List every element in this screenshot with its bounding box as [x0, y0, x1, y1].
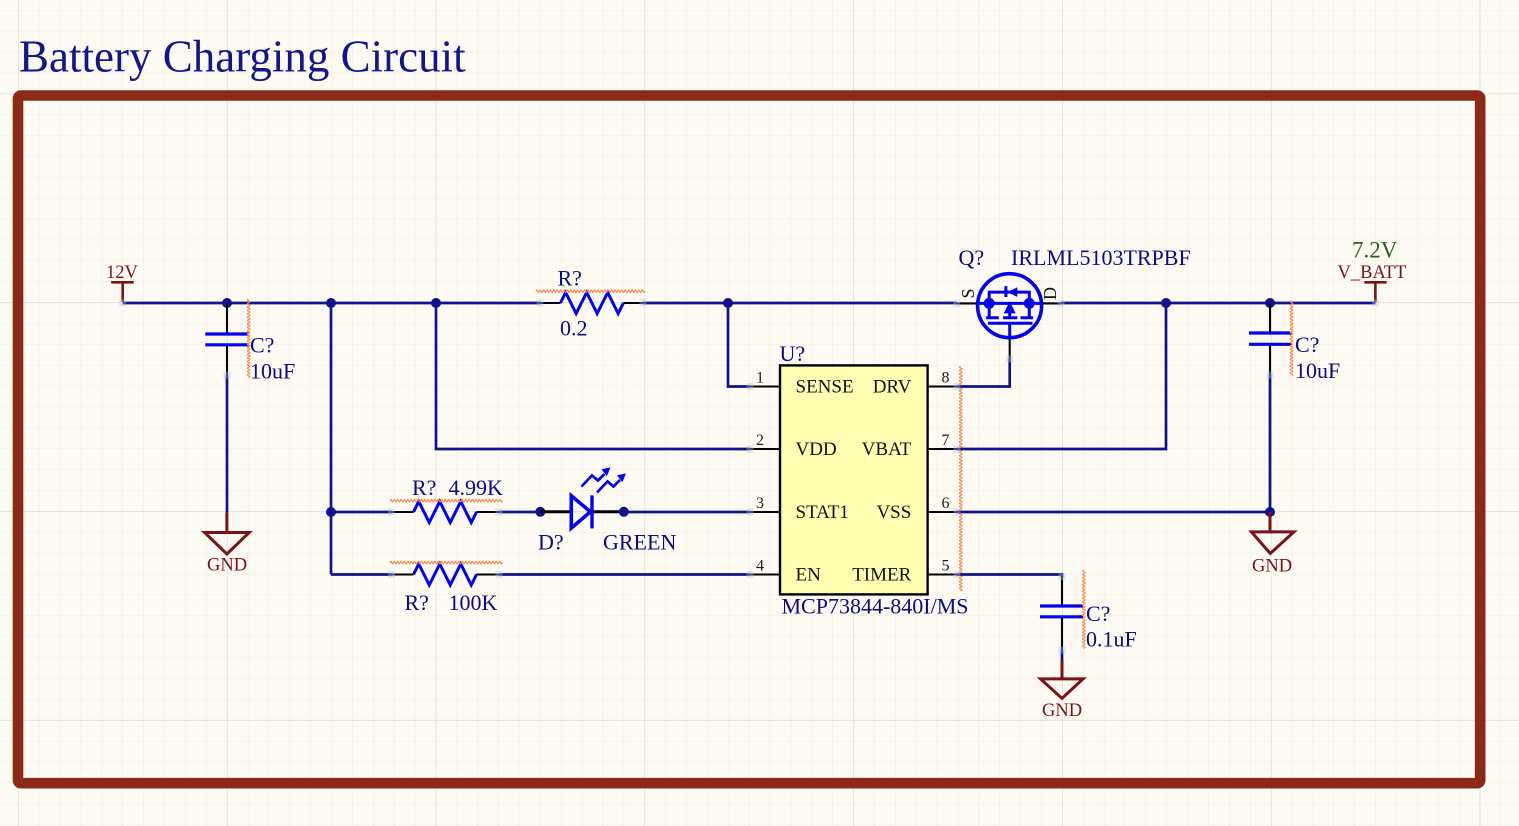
- wire VBAT branch: [957, 303, 1166, 449]
- svg-text:Battery Charging Circuit: Battery Charging Circuit: [19, 32, 466, 82]
- junction at VDD branch: [431, 298, 441, 308]
- svg-text:U?: U?: [780, 341, 806, 366]
- LED D?: [538, 468, 676, 555]
- svg-text:STAT1: STAT1: [796, 502, 849, 523]
- wire R1 to Q1 source: [643, 302, 957, 305]
- svg-text:10uF: 10uF: [1295, 358, 1340, 383]
- wire C2 to GND: [1061, 650, 1064, 660]
- svg-text:C?: C?: [250, 333, 274, 358]
- wire branch to VDD: [436, 303, 750, 449]
- junction VSS/C3/GND: [1265, 507, 1275, 517]
- wire R3 to EN: [499, 573, 750, 576]
- svg-text:100K: 100K: [449, 590, 498, 615]
- svg-text:4.99K: 4.99K: [449, 475, 504, 500]
- svg-text:MCP73844-840I/MS: MCP73844-840I/MS: [782, 594, 969, 619]
- wire C1 to GND: [226, 375, 229, 512]
- junction LED anode: [535, 507, 545, 517]
- wire C3 to VSS junction: [1269, 375, 1272, 512]
- svg-text:7.2V: 7.2V: [1352, 237, 1398, 262]
- junction LED cathode: [619, 507, 629, 517]
- wire branch to R2/R3: [330, 303, 333, 575]
- svg-text:SENSE: SENSE: [796, 377, 854, 398]
- svg-text:GND: GND: [207, 556, 247, 576]
- svg-text:7: 7: [942, 432, 950, 449]
- LED arrow 1: [582, 474, 605, 487]
- IC left pins: [750, 387, 780, 575]
- power port V_BATT: [1364, 282, 1386, 302]
- source/drain pins: [957, 302, 1062, 304]
- resistor R2 4.99K: [390, 475, 503, 523]
- capacitor C2 0.1uF: [1040, 570, 1137, 651]
- wire to R2: [331, 511, 392, 514]
- junction at STAT1 row: [326, 507, 336, 517]
- LED arrow 2: [597, 480, 620, 493]
- svg-text:0.1uF: 0.1uF: [1086, 627, 1137, 652]
- svg-text:C?: C?: [1295, 332, 1319, 357]
- svg-text:VBAT: VBAT: [862, 439, 912, 460]
- svg-text:R?: R?: [405, 590, 429, 615]
- IC right pins: [928, 387, 958, 575]
- svg-text:VDD: VDD: [796, 439, 837, 460]
- svg-text:IRLML5103TRPBF: IRLML5103TRPBF: [1011, 245, 1191, 270]
- junction at SENSE branch: [723, 298, 733, 308]
- svg-text:10uF: 10uF: [250, 359, 295, 384]
- svg-text:5: 5: [942, 558, 950, 575]
- pin end markers: [119, 300, 1379, 654]
- svg-text:1: 1: [756, 370, 764, 387]
- compile mask IC right pins: [959, 366, 962, 590]
- junction at C1 branch: [222, 298, 232, 308]
- svg-text:GND: GND: [1252, 557, 1292, 577]
- svg-text:GREEN: GREEN: [603, 530, 676, 555]
- resistor R1 0.2: [536, 266, 645, 341]
- svg-text:3: 3: [756, 495, 764, 512]
- resistor R3 100K: [390, 561, 502, 615]
- wire TIMER to C2: [957, 575, 1062, 578]
- wire R2 to LED: [499, 511, 540, 514]
- wire DRV to Q1 gate: [957, 359, 1010, 387]
- svg-text:2: 2: [756, 432, 764, 449]
- svg-text:TIMER: TIMER: [852, 565, 911, 586]
- svg-text:R?: R?: [558, 266, 582, 291]
- svg-text:GND: GND: [1042, 701, 1082, 721]
- wire to R3: [331, 573, 392, 576]
- svg-text:6: 6: [942, 495, 950, 512]
- wire branch to SENSE: [728, 303, 750, 387]
- ground GND right: [1251, 512, 1294, 554]
- svg-text:S: S: [958, 288, 978, 298]
- svg-text:8: 8: [942, 370, 950, 387]
- svg-text:Q?: Q?: [959, 245, 985, 270]
- junction at R2/R3 branch: [326, 298, 336, 308]
- wire LED to STAT1: [624, 511, 750, 514]
- svg-text:C?: C?: [1086, 601, 1110, 626]
- ground GND timer: [1041, 660, 1084, 698]
- transistor Q1 IRLML5103TRPBF: [957, 245, 1191, 359]
- IC U1 MCP73844 body: [780, 365, 928, 594]
- svg-text:D?: D?: [538, 530, 564, 555]
- power port 12V: [111, 282, 134, 302]
- svg-text:R?: R?: [412, 475, 436, 500]
- ground GND left: [205, 512, 250, 554]
- svg-text:0.2: 0.2: [560, 316, 588, 341]
- wire VSS: [957, 511, 1270, 514]
- capacitor C3 10uF: [1249, 301, 1340, 383]
- capacitor C1 10uF: [205, 299, 295, 383]
- junction at VBAT branch: [1161, 298, 1171, 308]
- wire Q1 drain to V_BATT: [1061, 302, 1376, 305]
- svg-text:EN: EN: [796, 565, 822, 586]
- wire 12V to R1: [123, 302, 541, 305]
- gate pin: [1009, 338, 1011, 359]
- svg-text:12V: 12V: [106, 263, 139, 283]
- svg-text:VSS: VSS: [876, 502, 911, 523]
- svg-text:D: D: [1040, 287, 1060, 300]
- svg-text:4: 4: [756, 558, 764, 575]
- junction at C3 branch: [1265, 298, 1275, 308]
- svg-text:V_BATT: V_BATT: [1338, 263, 1407, 283]
- svg-text:DRV: DRV: [873, 377, 912, 398]
